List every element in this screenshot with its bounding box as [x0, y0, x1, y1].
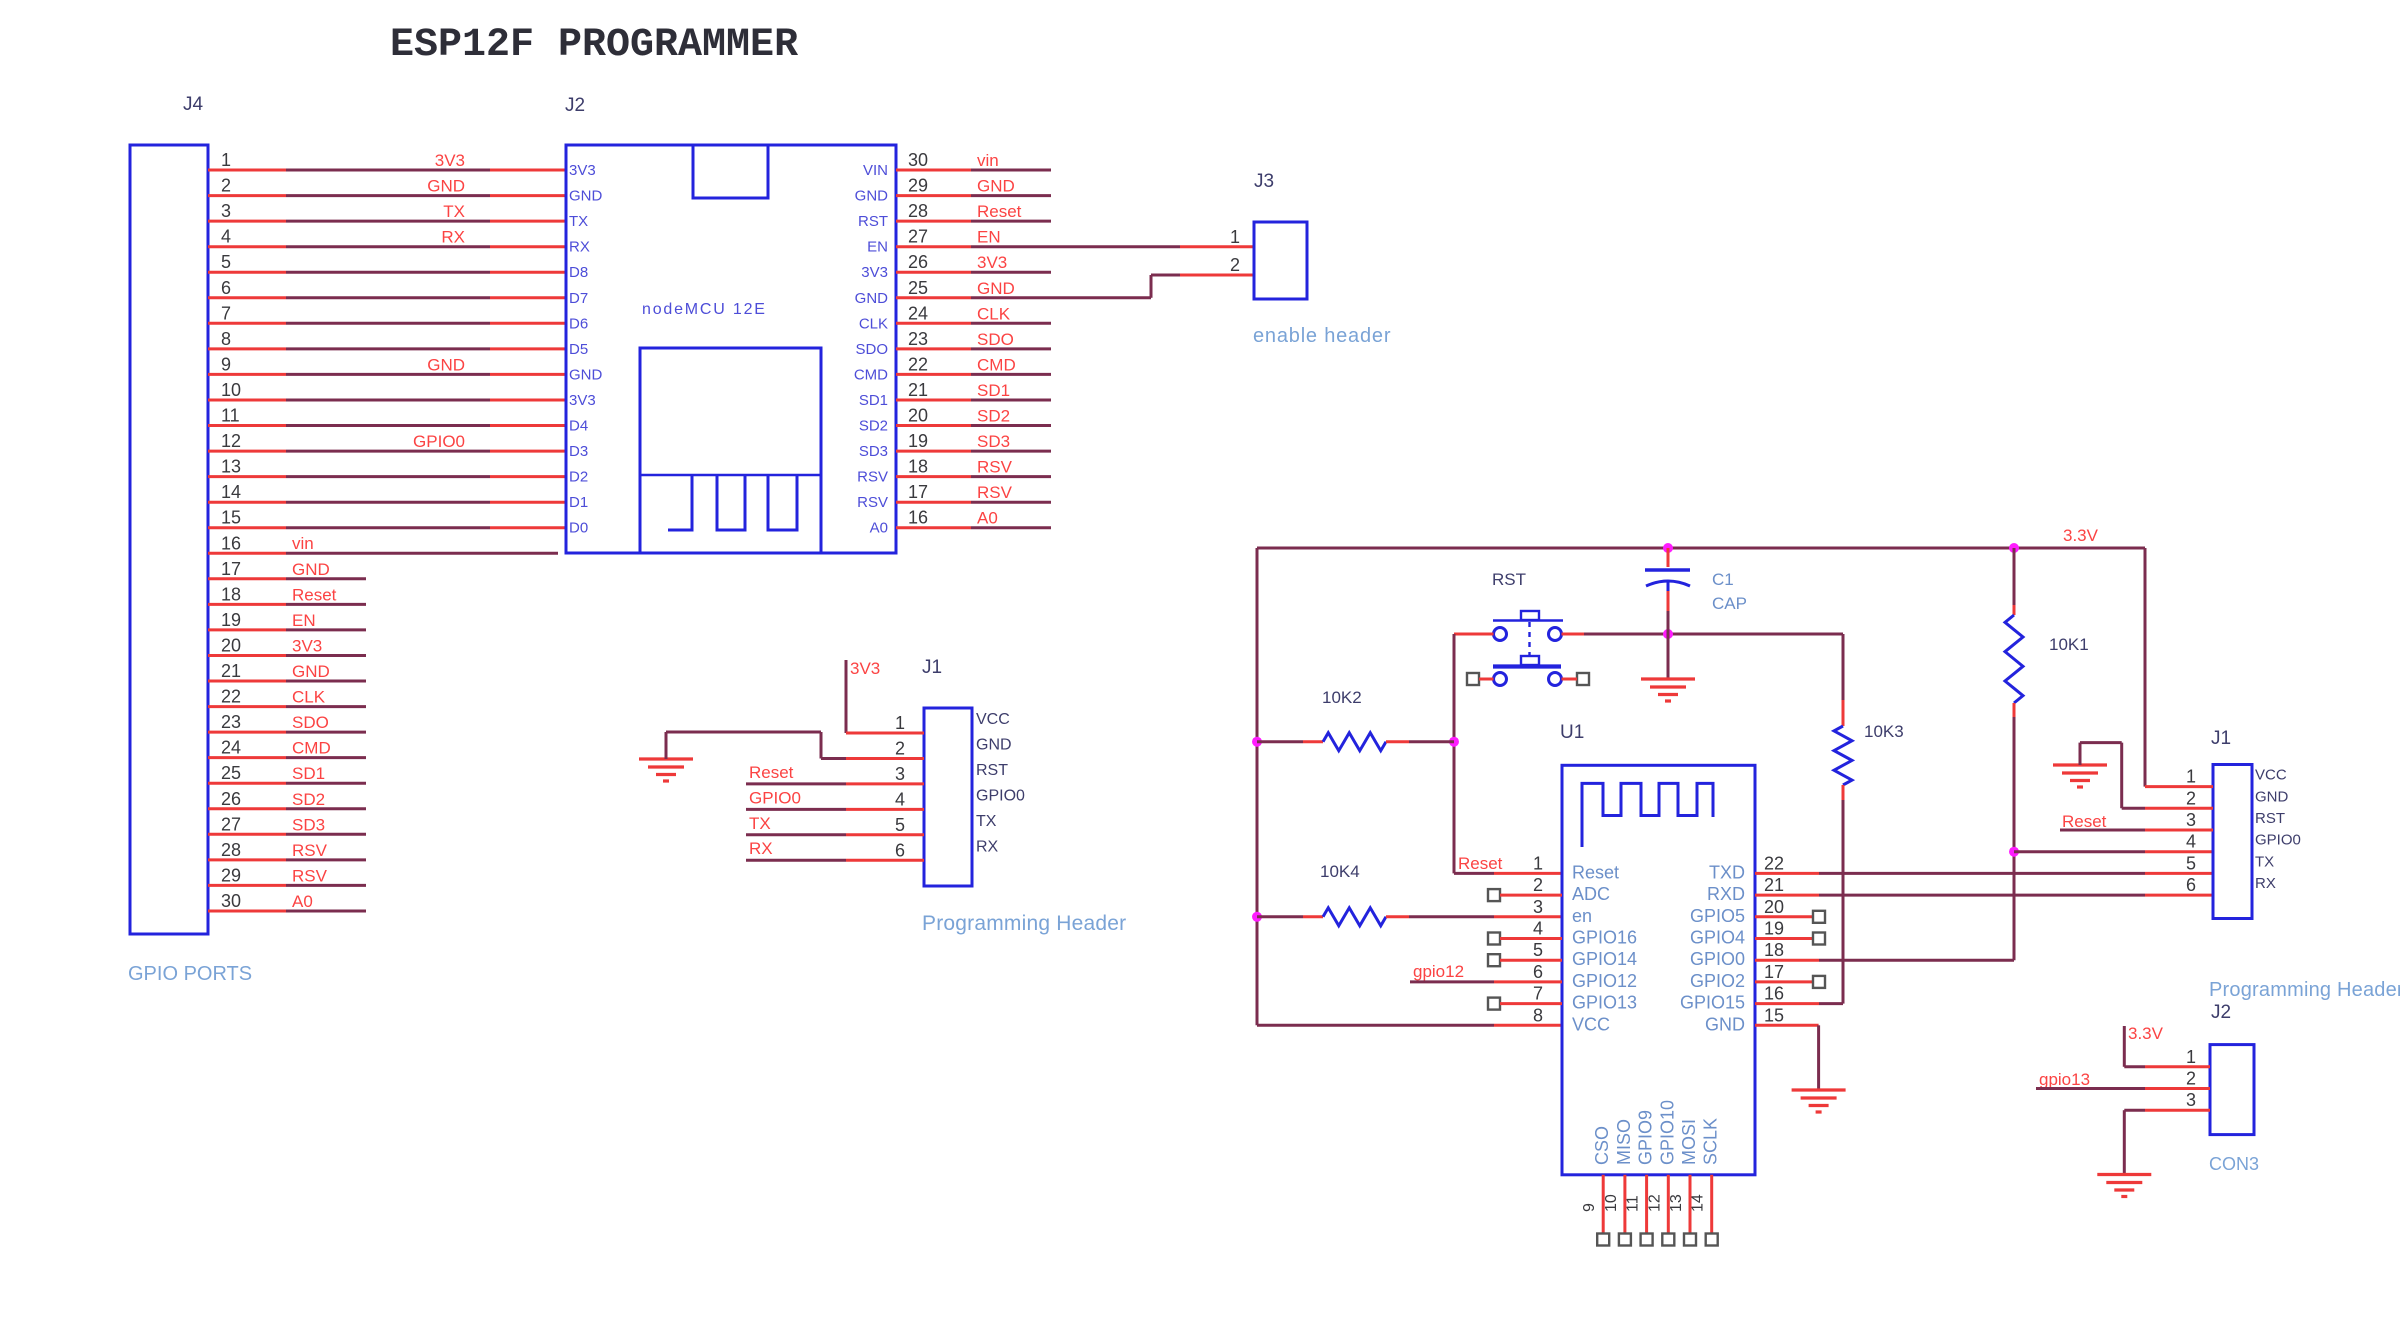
svg-text:23: 23 — [908, 329, 928, 349]
svg-text:29: 29 — [908, 176, 928, 196]
svg-text:C1: C1 — [1712, 570, 1734, 589]
svg-text:10K2: 10K2 — [1322, 688, 1362, 707]
header J1 programming header (middle) — [922, 657, 972, 886]
svg-text:GND: GND — [427, 177, 465, 196]
svg-text:1: 1 — [1230, 227, 1240, 247]
svg-text:27: 27 — [221, 814, 241, 834]
svg-text:A0: A0 — [292, 892, 313, 911]
svg-text:CLK: CLK — [977, 304, 1011, 323]
wire 3.3V rail to J1 right pin1 — [2145, 548, 2213, 787]
unconnected pin square U1 left pin 2 — [1488, 889, 1562, 901]
svg-text:17: 17 — [1764, 962, 1784, 982]
svg-text:Reset: Reset — [2062, 812, 2107, 831]
svg-text:GND: GND — [976, 736, 1012, 753]
svg-text:SD3: SD3 — [292, 815, 325, 834]
svg-text:17: 17 — [221, 559, 241, 579]
J4 pin numbers 1-30 — [221, 150, 241, 911]
wire J4 pin 17 net GND — [208, 560, 366, 579]
svg-text:GPIO14: GPIO14 — [1572, 949, 1637, 969]
svg-text:Reset: Reset — [292, 585, 337, 604]
svg-text:J1: J1 — [922, 657, 942, 678]
resistor 10K2 — [1257, 688, 1454, 751]
svg-text:enable header: enable header — [1253, 325, 1391, 347]
svg-text:2: 2 — [2186, 788, 2196, 808]
wire J4 pin 8 to J2 pin 8 — [208, 347, 566, 350]
svg-text:4: 4 — [2186, 832, 2196, 852]
svg-text:10: 10 — [1603, 1194, 1620, 1212]
wire J4 pin 26 net SD2 — [208, 790, 366, 809]
svg-text:RSV: RSV — [292, 866, 328, 885]
capacitor C1 — [1645, 548, 1747, 678]
svg-text:20: 20 — [1764, 897, 1784, 917]
svg-text:GPIO16: GPIO16 — [1572, 928, 1637, 948]
svg-text:2: 2 — [1230, 255, 1240, 275]
wire J4 pin 30 net A0 — [208, 892, 366, 911]
junction dot C1 on rail — [1663, 543, 1673, 553]
svg-text:2: 2 — [221, 176, 231, 196]
svg-text:gpio13: gpio13 — [2039, 1070, 2090, 1089]
svg-text:D4: D4 — [569, 418, 588, 435]
svg-text:17: 17 — [908, 482, 928, 502]
svg-text:J1: J1 — [2211, 728, 2231, 749]
svg-text:GPIO13: GPIO13 — [1572, 993, 1637, 1013]
svg-text:CMD: CMD — [977, 355, 1016, 374]
svg-text:CAP: CAP — [1712, 594, 1747, 613]
J1 right pin names — [2255, 767, 2301, 893]
svg-text:GND: GND — [977, 177, 1015, 196]
svg-text:RST: RST — [858, 213, 888, 230]
svg-text:D8: D8 — [569, 264, 588, 281]
svg-text:25: 25 — [908, 278, 928, 298]
svg-text:24: 24 — [908, 303, 928, 323]
module U1 ESP12 — [1560, 722, 1755, 1175]
wire J4 pin 9 to J2 pin 9 — [208, 355, 566, 374]
svg-text:3V3: 3V3 — [861, 264, 888, 281]
svg-text:4: 4 — [895, 789, 905, 809]
svg-text:3V3: 3V3 — [569, 392, 596, 409]
svg-text:2: 2 — [895, 738, 905, 758]
svg-text:1: 1 — [2186, 767, 2196, 787]
wire J2 right row 21 net SD1 — [896, 381, 1051, 400]
svg-text:28: 28 — [221, 840, 241, 860]
net 3.3V top rail — [1257, 526, 2145, 548]
svg-text:25: 25 — [221, 763, 241, 783]
svg-text:VCC: VCC — [1572, 1014, 1610, 1034]
wire J4 pin 5 to J2 pin 5 — [208, 271, 566, 274]
resistor 10K3 — [1834, 634, 1904, 1004]
svg-text:SD2: SD2 — [292, 790, 325, 809]
wire J2 right row 30 net vin — [896, 151, 1051, 170]
svg-text:20: 20 — [908, 406, 928, 426]
svg-text:3V3: 3V3 — [435, 151, 465, 170]
wire J2 right row 27 net EN — [896, 228, 1254, 247]
svg-text:D5: D5 — [569, 341, 588, 358]
svg-text:GPIO0: GPIO0 — [976, 787, 1025, 804]
U1 left pin labels — [1572, 862, 1637, 1034]
U1 left pin numbers 1-8 — [1533, 853, 1543, 1025]
svg-text:13: 13 — [221, 457, 241, 477]
J1 middle pin names — [976, 711, 1025, 855]
svg-text:U1: U1 — [1560, 722, 1584, 743]
svg-text:3V3: 3V3 — [977, 253, 1007, 272]
wire J4 pin 12 to J2 pin 12 — [208, 432, 566, 451]
svg-text:RX: RX — [2255, 875, 2276, 892]
svg-text:7: 7 — [1533, 984, 1543, 1004]
svg-text:16: 16 — [221, 533, 241, 553]
svg-text:6: 6 — [895, 840, 905, 860]
svg-text:6: 6 — [221, 278, 231, 298]
svg-text:10: 10 — [221, 380, 241, 400]
header J3 (enable header) — [1230, 171, 1307, 299]
svg-text:3.3V: 3.3V — [2128, 1024, 2164, 1043]
wire J2 right row 23 net SDO — [896, 330, 1051, 349]
wire J2 right row 25 net GND — [896, 275, 1254, 298]
junction dot 10K2 left — [1252, 737, 1262, 747]
svg-text:RSV: RSV — [857, 494, 888, 511]
svg-text:5: 5 — [221, 252, 231, 272]
svg-text:RSV: RSV — [292, 841, 328, 860]
svg-text:D2: D2 — [569, 469, 588, 486]
svg-text:CLK: CLK — [859, 315, 888, 332]
svg-text:GND: GND — [427, 355, 465, 374]
resistor 10K1 — [2005, 548, 2089, 960]
svg-text:8: 8 — [221, 329, 231, 349]
wire J4 pin 4 to J2 pin 4 — [208, 228, 566, 247]
svg-text:Programming Header: Programming Header — [2209, 979, 2400, 1001]
svg-text:SD1: SD1 — [977, 381, 1010, 400]
svg-text:TX: TX — [976, 813, 997, 830]
wire J2 right row 26 net 3V3 — [896, 253, 1051, 272]
svg-text:3: 3 — [2186, 810, 2196, 830]
svg-text:Reset: Reset — [1572, 862, 1619, 882]
unconnected pin square U1 right GPIO4 — [1755, 933, 1825, 945]
svg-text:D6: D6 — [569, 315, 588, 332]
svg-text:MISO: MISO — [1614, 1119, 1634, 1165]
svg-text:19: 19 — [221, 610, 241, 630]
svg-text:CLK: CLK — [292, 688, 326, 707]
svg-text:TX: TX — [569, 213, 588, 230]
svg-text:GND: GND — [2255, 788, 2289, 805]
svg-text:ESP12F PROGRAMMER: ESP12F PROGRAMMER — [390, 23, 798, 68]
svg-text:D1: D1 — [569, 494, 588, 511]
svg-text:30: 30 — [221, 891, 241, 911]
svg-text:CON3: CON3 — [2209, 1154, 2259, 1174]
svg-text:EN: EN — [977, 228, 1001, 247]
svg-text:D7: D7 — [569, 290, 588, 307]
svg-text:28: 28 — [908, 201, 928, 221]
wire J4 pin 21 net GND — [208, 662, 366, 681]
svg-text:24: 24 — [221, 738, 241, 758]
junction dot 10K1 / J1 right pin4 — [2009, 847, 2019, 857]
wire J4 pin 6 to J2 pin 6 — [208, 296, 566, 299]
svg-text:20: 20 — [221, 635, 241, 655]
svg-text:RST: RST — [976, 762, 1008, 779]
wire J4 pin 22 net CLK — [208, 688, 366, 707]
module J2 nodeMCU 12E — [565, 95, 896, 553]
svg-text:A0: A0 — [870, 520, 888, 537]
svg-text:GPIO0: GPIO0 — [413, 432, 465, 451]
svg-text:GPIO0: GPIO0 — [2255, 832, 2301, 849]
wire J4 pin 7 to J2 pin 7 — [208, 322, 566, 325]
svg-text:16: 16 — [1764, 984, 1784, 1004]
svg-text:nodeMCU 12E: nodeMCU 12E — [642, 301, 767, 318]
unconnected pin square U1 left pin 7 — [1488, 998, 1562, 1010]
J1 middle pin numbers — [895, 713, 905, 860]
wire RST right contact to C1 and 10K3 — [1562, 633, 1844, 636]
svg-text:16: 16 — [908, 508, 928, 528]
J1 right pin numbers — [2186, 767, 2196, 896]
wire J2 right row 24 net CLK — [896, 304, 1051, 323]
svg-text:22: 22 — [908, 354, 928, 374]
svg-text:VCC: VCC — [2255, 767, 2287, 784]
svg-text:CSO: CSO — [1592, 1126, 1612, 1165]
wire J4 pin 14 to J2 pin 14 — [208, 501, 566, 504]
svg-text:vin: vin — [977, 151, 999, 170]
svg-text:3: 3 — [1533, 897, 1543, 917]
svg-text:10K3: 10K3 — [1864, 722, 1904, 741]
svg-text:GPIO15: GPIO15 — [1680, 993, 1745, 1013]
svg-text:9: 9 — [221, 354, 231, 374]
wire U1 GPIO15 to 10K3 — [1755, 1002, 1843, 1005]
svg-text:3V3: 3V3 — [292, 637, 322, 656]
wire J2 right row 20 net SD2 — [896, 407, 1051, 426]
svg-text:10K1: 10K1 — [2049, 635, 2089, 654]
svg-text:8: 8 — [1533, 1005, 1543, 1025]
wire J4 pin 16 net vin — [208, 534, 558, 553]
unconnected pin square U1 left pin 4 — [1488, 933, 1562, 945]
svg-text:5: 5 — [1533, 940, 1543, 960]
svg-text:15: 15 — [1764, 1005, 1784, 1025]
svg-text:15: 15 — [221, 508, 241, 528]
junction dot Reset vertical / 10K2 — [1449, 737, 1459, 747]
svg-text:14: 14 — [221, 482, 241, 502]
svg-text:5: 5 — [895, 815, 905, 835]
wire net gpio13 to CON3 pin2 — [2036, 1070, 2210, 1089]
U1 bottom pin 10 MISO — [1603, 1119, 1634, 1246]
svg-text:26: 26 — [221, 789, 241, 809]
wire J4 pin 24 net CMD — [208, 739, 366, 758]
svg-text:RSV: RSV — [857, 469, 888, 486]
svg-text:RX: RX — [441, 228, 465, 247]
svg-text:5: 5 — [2186, 853, 2196, 873]
J2 right pin numbers 30-16 — [908, 150, 928, 528]
svg-text:2: 2 — [1533, 875, 1543, 895]
svg-text:A0: A0 — [977, 509, 998, 528]
wire J4 pin 28 net RSV — [208, 841, 366, 860]
svg-text:RX: RX — [976, 838, 999, 855]
svg-text:GPIO10: GPIO10 — [1657, 1100, 1677, 1165]
svg-text:SCLK: SCLK — [1701, 1118, 1721, 1165]
wire CON3 pin3 to ground — [2124, 1110, 2210, 1173]
wire U1 TXD to J1 right pin5 — [1755, 872, 2213, 875]
svg-text:GPIO12: GPIO12 — [1572, 971, 1637, 991]
svg-text:CMD: CMD — [292, 739, 331, 758]
svg-text:2: 2 — [2186, 1069, 2196, 1089]
wire J4 pin 29 net RSV — [208, 866, 366, 885]
connector J4 (GPIO PORTS) — [130, 94, 208, 934]
svg-text:18: 18 — [1764, 940, 1784, 960]
wire J4 pin 10 to J2 pin 10 — [208, 399, 566, 402]
resistor 10K4 — [1257, 862, 1562, 926]
unconnected pin square U1 right GPIO2 — [1755, 976, 1825, 988]
svg-text:GND: GND — [1705, 1014, 1745, 1034]
svg-text:Reset: Reset — [749, 763, 794, 782]
svg-text:GPIO2: GPIO2 — [1690, 971, 1745, 991]
svg-text:SDO: SDO — [855, 341, 888, 358]
wire net GPIO0 to J1 mid pin 4 — [746, 788, 924, 809]
svg-text:en: en — [1572, 906, 1592, 926]
svg-text:GPIO0: GPIO0 — [1690, 949, 1745, 969]
U1 right pin numbers 22-15 — [1764, 853, 1784, 1025]
svg-text:14: 14 — [1690, 1194, 1707, 1212]
wire J2 right row 19 net SD3 — [896, 432, 1051, 451]
U1 bottom pin 14 SCLK — [1690, 1118, 1721, 1246]
wire J4 pin 13 to J2 pin 13 — [208, 475, 566, 478]
svg-text:12: 12 — [221, 431, 241, 451]
svg-text:CMD: CMD — [854, 366, 888, 383]
svg-text:22: 22 — [1764, 853, 1784, 873]
svg-text:27: 27 — [908, 227, 928, 247]
svg-text:Reset: Reset — [1458, 854, 1503, 873]
svg-text:RSV: RSV — [977, 458, 1013, 477]
wire net RX to J1 mid pin 6 — [746, 839, 924, 860]
svg-text:SD1: SD1 — [859, 392, 888, 409]
svg-text:6: 6 — [2186, 875, 2196, 895]
wire J4 pin 3 to J2 pin 3 — [208, 202, 566, 221]
wire J2 right row 28 net Reset — [896, 202, 1051, 221]
J2 left pin labels — [569, 162, 603, 537]
svg-text:D3: D3 — [569, 443, 588, 460]
U1 right pin labels — [1680, 862, 1745, 1034]
net 3.3V to CON3 pin1 — [2124, 1024, 2210, 1067]
svg-text:4: 4 — [221, 227, 231, 247]
svg-text:GND: GND — [977, 279, 1015, 298]
svg-text:TXD: TXD — [1709, 862, 1745, 882]
svg-text:6: 6 — [1533, 962, 1543, 982]
wire J4 pin 15 to J2 pin 15 — [208, 526, 566, 529]
svg-text:gpio12: gpio12 — [1413, 962, 1464, 981]
svg-text:12: 12 — [1646, 1194, 1663, 1212]
U1 bottom pin 13 MOSI — [1668, 1119, 1699, 1246]
wire J2 right row 16 net A0 — [896, 509, 1051, 528]
U1 bottom pin 11 GPIO9 — [1625, 1110, 1656, 1246]
wire J2 right row 17 net RSV — [896, 483, 1051, 502]
svg-text:4: 4 — [1533, 919, 1543, 939]
svg-text:RSV: RSV — [977, 483, 1013, 502]
svg-text:19: 19 — [908, 431, 928, 451]
svg-text:22: 22 — [221, 687, 241, 707]
svg-text:EN: EN — [292, 611, 316, 630]
wire J4 pin 1 to J2 pin 1 — [208, 151, 566, 170]
svg-text:VCC: VCC — [976, 711, 1010, 728]
svg-text:21: 21 — [221, 661, 241, 681]
svg-text:RST: RST — [2255, 810, 2285, 827]
U1 bottom pin 12 GPIO10 — [1646, 1100, 1677, 1246]
svg-text:19: 19 — [1764, 919, 1784, 939]
ground C1 — [1641, 677, 1695, 680]
svg-text:26: 26 — [908, 252, 928, 272]
svg-text:RXD: RXD — [1707, 884, 1745, 904]
svg-text:3: 3 — [221, 201, 231, 221]
unconnected pin square U1 left pin 5 — [1488, 954, 1562, 966]
svg-text:GPIO5: GPIO5 — [1690, 906, 1745, 926]
svg-text:GND: GND — [292, 662, 330, 681]
svg-text:TX: TX — [2255, 853, 2274, 870]
wire U1 RXD to J1 right pin6 — [1755, 894, 2213, 897]
svg-text:GPIO0: GPIO0 — [749, 788, 801, 807]
svg-text:3: 3 — [895, 764, 905, 784]
svg-text:23: 23 — [221, 712, 241, 732]
wire J4 pin 25 net SD1 — [208, 764, 366, 783]
wire U1 GND to ground — [1755, 1025, 1819, 1089]
svg-text:Programming Header: Programming Header — [922, 912, 1126, 935]
wire net Reset to J1 mid pin 3 — [746, 763, 924, 784]
svg-text:13: 13 — [1668, 1194, 1685, 1212]
svg-text:11: 11 — [1625, 1195, 1642, 1212]
svg-text:D0: D0 — [569, 520, 588, 537]
svg-text:1: 1 — [895, 713, 905, 733]
svg-text:J3: J3 — [1254, 171, 1274, 192]
wire J4 pin 23 net SDO — [208, 713, 366, 732]
svg-text:30: 30 — [908, 150, 928, 170]
svg-text:9: 9 — [1581, 1203, 1598, 1212]
junction dot C1 top — [1663, 629, 1673, 639]
junction dot 10K1 on rail — [2009, 543, 2019, 553]
svg-text:J4: J4 — [183, 94, 204, 115]
svg-text:SD2: SD2 — [859, 418, 888, 435]
ground CON3 — [2097, 1173, 2151, 1176]
svg-text:EN: EN — [867, 239, 888, 256]
wire net TX to J1 mid pin 5 — [746, 814, 924, 835]
wire J4 pin 2 to J2 pin 2 — [208, 177, 566, 196]
svg-text:3V3: 3V3 — [569, 162, 596, 179]
svg-text:GND: GND — [569, 188, 603, 205]
J2 right pin labels — [854, 162, 888, 537]
svg-text:SD1: SD1 — [292, 764, 325, 783]
svg-text:GND: GND — [855, 188, 889, 205]
svg-text:Reset: Reset — [977, 202, 1022, 221]
svg-text:3: 3 — [2186, 1090, 2196, 1110]
svg-text:vin: vin — [292, 534, 314, 553]
unconnected pin square U1 right GPIO5 — [1755, 911, 1825, 923]
svg-text:29: 29 — [221, 865, 241, 885]
wire J4 pin 18 net Reset — [208, 585, 366, 604]
wire U1 GPIO0 to 10K1 and J1 right pin4 — [1755, 852, 2213, 961]
wire J4 pin 19 net EN — [208, 611, 366, 630]
wire J2 right row 29 net GND — [896, 177, 1051, 196]
svg-text:RX: RX — [749, 839, 773, 858]
header J1 programming header (right) — [2211, 728, 2252, 919]
wire net Reset to J1 right pin3 — [2060, 812, 2213, 831]
svg-text:SD3: SD3 — [859, 443, 888, 460]
svg-text:21: 21 — [908, 380, 928, 400]
svg-text:18: 18 — [221, 584, 241, 604]
ground at J1 mid pin2 — [639, 732, 924, 781]
svg-text:MOSI: MOSI — [1679, 1119, 1699, 1165]
svg-text:J2: J2 — [2211, 1002, 2231, 1023]
svg-text:GND: GND — [855, 290, 889, 307]
svg-text:21: 21 — [1764, 875, 1784, 895]
svg-text:J2: J2 — [565, 95, 585, 116]
wire left vertical rail — [1257, 548, 1562, 1025]
connector J2 CON3 — [2210, 1002, 2254, 1135]
wire net gpio12 to U1 pin6 — [1410, 962, 1562, 982]
svg-text:GND: GND — [292, 560, 330, 579]
wire J2 right row 22 net CMD — [896, 355, 1051, 374]
svg-text:SD3: SD3 — [977, 432, 1010, 451]
wire J4 pin 11 to J2 pin 11 — [208, 424, 566, 427]
svg-text:10K4: 10K4 — [1320, 862, 1360, 881]
